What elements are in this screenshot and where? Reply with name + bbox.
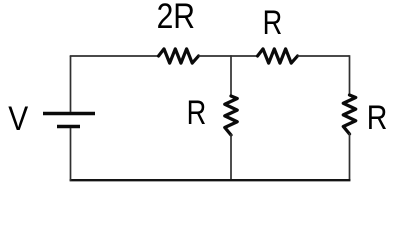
label 2R [157, 0, 195, 36]
resistor R1 (middle branch, vertical) [225, 96, 237, 135]
wire: R3 to bottom-right corner [349, 133, 351, 181]
wire: battery positive terminal up to top-left corner [70, 56, 72, 112]
label R (series resistor R2) [263, 3, 283, 42]
svg-text:V: V [8, 99, 29, 137]
label R (middle resistor R1) [187, 93, 207, 132]
label R (right resistor R3) [367, 99, 388, 137]
node A: junction of 2R, series R and middle R [230, 55, 232, 57]
resistor 2R (horizontal) [159, 49, 199, 63]
resistor R3 (right branch, vertical) [343, 95, 355, 134]
voltage source V (battery) [43, 114, 95, 127]
wire: node A to series resistor R2 [231, 55, 258, 57]
wire: 2R to node A [199, 55, 232, 57]
svg-text:R: R [263, 3, 283, 42]
wire: R2 to top-right corner [298, 55, 350, 57]
svg-text:2R: 2R [157, 0, 195, 36]
svg-text:R: R [187, 93, 207, 132]
wire: bottom return conductor [70, 179, 351, 181]
wire: node A down to middle resistor R1 [230, 56, 232, 97]
resistor R2 (series, horizontal) [258, 49, 298, 63]
svg-text:R: R [367, 99, 388, 137]
wire: R1 to bottom wire [230, 134, 232, 180]
wire: top-left corner to resistor 2R [70, 55, 159, 57]
label V [8, 99, 29, 137]
wire: top-right corner down to resistor R3 [349, 55, 351, 95]
wire: battery negative terminal down to bottom-left corner [70, 128, 72, 181]
